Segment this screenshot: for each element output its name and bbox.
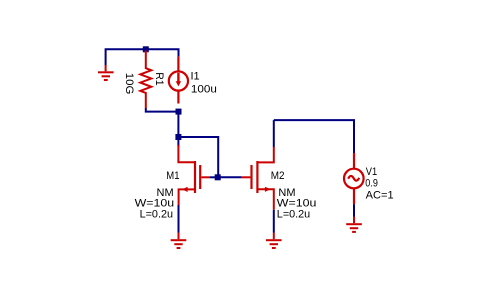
wire V1 bottom to ground (353, 204, 355, 216)
resistor R1 (140, 51, 151, 109)
ground (below V1) (346, 217, 362, 232)
svg-text:0.9: 0.9 (365, 178, 378, 190)
ground (below M1) (171, 233, 187, 249)
svg-text:100u: 100u (191, 83, 217, 95)
svg-text:R1: R1 (153, 72, 165, 85)
svg-text:I1: I1 (191, 71, 200, 83)
wire I1 bottom to drain node (177, 112, 179, 137)
wire M1 drain vertical (177, 137, 179, 147)
junction node at I1 bottom (176, 109, 182, 115)
wire M2 source to ground (273, 210, 275, 233)
wire drain node to gate node (178, 137, 218, 177)
voltage source V1 (344, 153, 364, 204)
wire M2 gate stub (218, 176, 241, 178)
wire M2 drain to top rail (273, 120, 275, 147)
wire bottom rail R1 to I1 (146, 108, 179, 112)
wire top right rail (274, 120, 354, 153)
svg-text:M2: M2 (271, 170, 285, 182)
wire M1 gate stub (210, 176, 218, 178)
current source I1 (169, 57, 188, 104)
svg-text:AC=1: AC=1 (366, 189, 394, 201)
junction node at R1 top (143, 46, 149, 52)
wire M1 source to ground (178, 205, 180, 233)
junction node gate net (215, 174, 221, 180)
wire top rail from ground to I1 (106, 49, 179, 65)
transistor M2 (NMOS) (242, 147, 274, 210)
transistor M1 (mirrored NMOS) (178, 145, 210, 205)
svg-text:V1: V1 (366, 166, 377, 178)
junction node drain M1 (175, 134, 181, 140)
svg-text:L=0.2u: L=0.2u (140, 209, 173, 221)
svg-text:10G: 10G (123, 73, 135, 95)
svg-text:M1: M1 (166, 170, 179, 182)
ground (top left) (98, 65, 114, 80)
svg-text:L=0.2u: L=0.2u (277, 209, 310, 221)
ground (below M2) (266, 233, 282, 249)
